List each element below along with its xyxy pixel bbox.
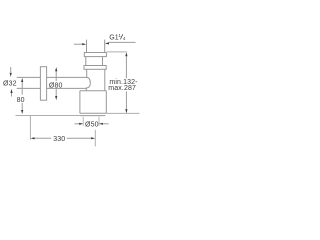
dim G1 1/4 arrows bbox=[74, 43, 82, 45]
wall flange bbox=[40, 67, 46, 101]
body below cap bbox=[85, 88, 87, 91]
tailpiece pipe G1 1/4 bbox=[87, 40, 105, 53]
extension line cup bottom to left bbox=[16, 114, 81, 116]
dim 80 vertical bbox=[21, 82, 23, 111]
nut upper flange bbox=[84, 53, 106, 57]
svg-text:330: 330 bbox=[53, 136, 65, 143]
pipe rounded end cap bbox=[83, 77, 90, 88]
cup bbox=[80, 91, 106, 114]
svg-text:G1: G1 bbox=[109, 35, 118, 42]
dim Ø80 vertical bbox=[55, 71, 57, 97]
svg-text:Ø80: Ø80 bbox=[49, 82, 63, 89]
svg-text:Ø32: Ø32 bbox=[3, 81, 17, 88]
svg-text:80: 80 bbox=[17, 97, 25, 104]
nut middle bbox=[86, 57, 103, 66]
dim Ø50 bbox=[75, 123, 80, 125]
outlet pipe bbox=[17, 77, 87, 88]
dim 330 bbox=[29, 116, 31, 140]
dim Ø32 arrows bbox=[10, 67, 13, 97]
svg-text:max.287: max.287 bbox=[108, 85, 136, 92]
svg-text:Ø50: Ø50 bbox=[85, 121, 99, 128]
svg-text:4: 4 bbox=[123, 36, 126, 41]
body upper section bbox=[87, 69, 105, 90]
nut lower flange bbox=[84, 66, 106, 70]
svg-text:1: 1 bbox=[118, 33, 121, 38]
dim min-max vertical bbox=[107, 51, 127, 53]
